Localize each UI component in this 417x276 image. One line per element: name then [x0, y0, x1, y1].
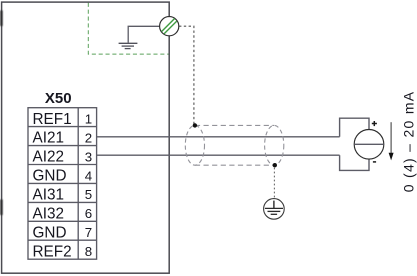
svg-text:8: 8: [85, 244, 92, 259]
svg-text:1: 1: [85, 112, 92, 127]
svg-text:5: 5: [85, 187, 92, 202]
svg-text:X50: X50: [45, 90, 72, 107]
svg-text:GND: GND: [33, 168, 67, 185]
svg-text:3: 3: [85, 149, 92, 164]
svg-text:REF1: REF1: [33, 111, 72, 128]
svg-text:2: 2: [85, 130, 92, 145]
svg-text:AI31: AI31: [33, 187, 64, 204]
svg-text:AI22: AI22: [33, 149, 64, 166]
svg-text:4: 4: [85, 168, 92, 183]
svg-text:GND: GND: [33, 224, 67, 241]
svg-text:7: 7: [85, 225, 92, 240]
svg-text:0 (4) – 20 mA: 0 (4) – 20 mA: [400, 91, 416, 193]
svg-text:AI21: AI21: [33, 130, 64, 147]
svg-text:AI32: AI32: [33, 206, 64, 223]
svg-text:6: 6: [85, 206, 92, 221]
svg-text:REF2: REF2: [33, 243, 72, 260]
